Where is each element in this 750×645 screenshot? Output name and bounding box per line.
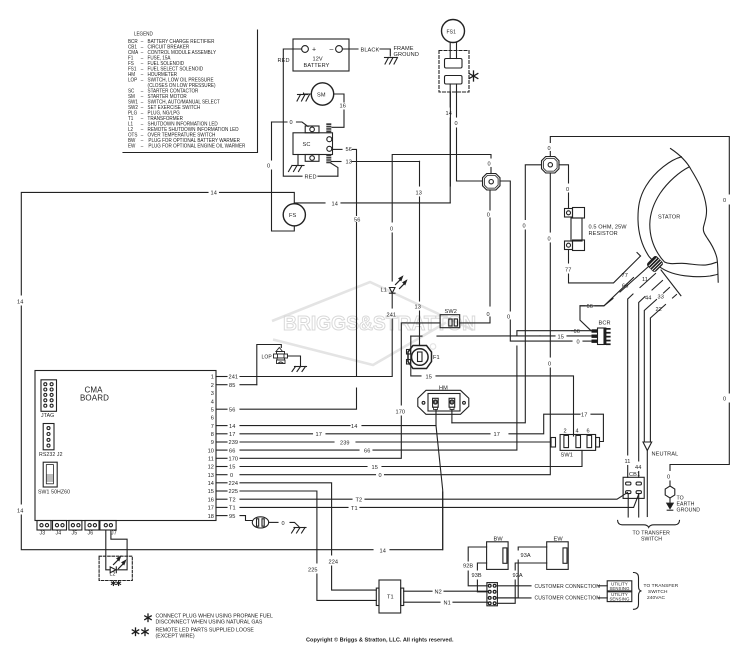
svg-text:17: 17 <box>494 432 500 438</box>
svg-text:T1: T1 <box>351 506 358 512</box>
svg-text:SC: SC <box>303 142 311 148</box>
svg-text:FS1: FS1 <box>447 30 457 36</box>
svg-text:SWITCH: SWITCH <box>648 589 668 595</box>
svg-text:J7: J7 <box>111 531 117 537</box>
svg-text:66: 66 <box>622 284 628 290</box>
svg-text:LOP: LOP <box>262 354 273 360</box>
svg-text:44: 44 <box>635 465 641 471</box>
svg-text:–: – <box>141 77 144 83</box>
svg-text:0: 0 <box>267 164 270 170</box>
svg-text:170: 170 <box>396 410 406 416</box>
svg-text:LEGEND: LEGEND <box>134 31 153 37</box>
svg-text:0: 0 <box>507 315 510 321</box>
svg-text:BCR: BCR <box>599 321 611 327</box>
svg-text:0: 0 <box>548 146 551 152</box>
svg-text:239: 239 <box>340 441 350 447</box>
svg-text:13: 13 <box>415 305 421 311</box>
svg-text:224: 224 <box>329 560 339 566</box>
svg-text:56: 56 <box>346 147 352 153</box>
svg-text:11: 11 <box>625 459 631 465</box>
svg-text:J3: J3 <box>40 531 46 537</box>
svg-text:RESISTOR: RESISTOR <box>589 231 618 237</box>
svg-text:0.5 OHM, 25W: 0.5 OHM, 25W <box>589 225 628 231</box>
svg-text:77: 77 <box>622 273 628 279</box>
svg-text:EW: EW <box>128 143 136 149</box>
svg-text:225: 225 <box>229 489 239 495</box>
svg-text:15: 15 <box>426 375 432 381</box>
svg-text:N1: N1 <box>444 600 451 606</box>
svg-text:0: 0 <box>488 162 491 168</box>
svg-text:BW: BW <box>494 537 504 543</box>
svg-text:66: 66 <box>229 448 235 454</box>
svg-text:BRIGGS&STRATTON: BRIGGS&STRATTON <box>283 312 476 335</box>
svg-text:92B: 92B <box>463 564 473 570</box>
svg-text:224: 224 <box>229 481 239 487</box>
svg-text:4: 4 <box>211 399 214 405</box>
svg-text:0: 0 <box>548 237 551 243</box>
svg-text:0: 0 <box>390 227 393 233</box>
svg-text:13: 13 <box>208 473 214 479</box>
svg-text:0: 0 <box>548 362 551 368</box>
svg-text:66: 66 <box>587 304 593 310</box>
svg-text:66: 66 <box>574 329 580 335</box>
svg-text:14: 14 <box>446 111 452 117</box>
svg-text:Copyright © Briggs & Stratton,: Copyright © Briggs & Stratton, LLC. All … <box>306 637 454 644</box>
svg-text:J5: J5 <box>72 531 78 537</box>
svg-text:22: 22 <box>656 307 662 313</box>
svg-text:2: 2 <box>564 429 567 435</box>
svg-text:16: 16 <box>208 497 214 503</box>
svg-text:N2: N2 <box>435 589 442 595</box>
svg-text:0: 0 <box>282 521 285 527</box>
svg-text:0: 0 <box>723 397 726 403</box>
svg-text:241: 241 <box>229 375 239 381</box>
svg-text:BATTERY: BATTERY <box>304 63 330 69</box>
svg-text:95: 95 <box>229 514 235 520</box>
svg-text:–: – <box>141 143 144 149</box>
svg-text:0: 0 <box>487 312 490 318</box>
svg-text:SM: SM <box>317 93 326 99</box>
svg-text:J6: J6 <box>88 531 94 537</box>
svg-text:SWITCH: SWITCH <box>641 537 662 543</box>
svg-text:239: 239 <box>229 440 239 446</box>
svg-text:T2: T2 <box>229 497 236 503</box>
svg-text:17: 17 <box>316 432 322 438</box>
svg-text:GROUND: GROUND <box>394 52 419 58</box>
svg-text:0: 0 <box>379 473 382 479</box>
svg-text:56: 56 <box>354 218 360 224</box>
svg-text:2: 2 <box>211 383 214 389</box>
svg-text:14: 14 <box>332 202 338 208</box>
svg-text:241: 241 <box>387 313 397 319</box>
svg-text:93A: 93A <box>521 553 531 559</box>
svg-text:10: 10 <box>208 448 214 454</box>
svg-text:15: 15 <box>372 465 378 471</box>
svg-text:17: 17 <box>208 506 214 512</box>
svg-text:170: 170 <box>229 457 239 463</box>
svg-text:CUSTOMER CONNECTION: CUSTOMER CONNECTION <box>535 584 601 590</box>
svg-text:56: 56 <box>229 407 235 413</box>
svg-text:SENSING: SENSING <box>609 597 630 602</box>
svg-text:12: 12 <box>208 465 214 471</box>
svg-text:92A: 92A <box>513 573 523 579</box>
svg-text:9: 9 <box>211 440 214 446</box>
svg-text:16: 16 <box>340 104 346 110</box>
svg-text:3: 3 <box>211 391 214 397</box>
svg-text:0: 0 <box>290 120 293 126</box>
svg-text:18: 18 <box>208 514 214 520</box>
svg-text:66: 66 <box>364 449 370 455</box>
svg-text:RED: RED <box>278 58 290 64</box>
svg-text:BOARD: BOARD <box>80 394 109 403</box>
svg-text:BLACK: BLACK <box>361 47 380 53</box>
svg-text:8: 8 <box>211 432 214 438</box>
svg-text:L1: L1 <box>381 288 387 294</box>
svg-text:13: 13 <box>416 191 422 197</box>
svg-text:7: 7 <box>211 424 214 430</box>
svg-text:14: 14 <box>229 424 235 430</box>
svg-text:CB1: CB1 <box>629 472 640 478</box>
svg-text:(EXCEPT WIRE): (EXCEPT WIRE) <box>156 634 195 640</box>
svg-text:F1: F1 <box>433 355 440 361</box>
svg-text:0: 0 <box>566 187 569 193</box>
svg-text:13: 13 <box>346 160 352 166</box>
svg-text:14: 14 <box>380 549 386 555</box>
svg-text:0: 0 <box>667 475 670 481</box>
svg-text:44: 44 <box>645 296 651 302</box>
svg-text:240VAC: 240VAC <box>647 595 666 601</box>
svg-text:GROUND: GROUND <box>677 508 701 514</box>
svg-text:+: + <box>312 46 316 53</box>
svg-text:6: 6 <box>211 416 214 422</box>
svg-text:DISCONNECT WHEN USING NATUR: DISCONNECT WHEN USING NATURAL GAS <box>156 620 263 626</box>
svg-text:–: – <box>330 47 334 54</box>
svg-text:SENSING: SENSING <box>609 586 630 591</box>
svg-text:SW1: SW1 <box>561 453 573 459</box>
svg-text:14: 14 <box>17 509 23 515</box>
svg-text:0: 0 <box>455 121 458 127</box>
svg-text:CUSTOMER CONNECTION: CUSTOMER CONNECTION <box>535 596 601 602</box>
svg-text:4: 4 <box>576 429 579 435</box>
svg-text:14: 14 <box>351 424 357 430</box>
svg-text:NEUTRAL: NEUTRAL <box>652 452 679 458</box>
svg-text:225: 225 <box>308 568 318 574</box>
svg-text:T1: T1 <box>229 506 236 512</box>
svg-text:6: 6 <box>587 429 590 435</box>
svg-text:17: 17 <box>229 432 235 438</box>
svg-text:17: 17 <box>581 413 587 419</box>
svg-text:0: 0 <box>487 213 490 219</box>
svg-text:77: 77 <box>565 268 571 274</box>
svg-text:HM: HM <box>439 386 448 392</box>
svg-text:11: 11 <box>208 457 214 463</box>
svg-text:15: 15 <box>229 465 235 471</box>
svg-text:J4: J4 <box>56 531 62 537</box>
svg-text:SW2: SW2 <box>445 309 457 315</box>
svg-text:0: 0 <box>523 224 526 230</box>
svg-text:0: 0 <box>230 473 233 479</box>
svg-text:RED: RED <box>305 175 317 181</box>
svg-text:14: 14 <box>17 300 23 306</box>
svg-text:JTAG: JTAG <box>41 413 54 419</box>
svg-text:L2: L2 <box>110 572 116 578</box>
svg-text:11: 11 <box>642 277 648 283</box>
svg-text:0: 0 <box>723 198 726 204</box>
svg-text:STATOR: STATOR <box>658 215 680 221</box>
svg-text:T1: T1 <box>387 594 394 600</box>
svg-text:15: 15 <box>558 335 564 341</box>
svg-text:SW1 50HZ60: SW1 50HZ60 <box>38 490 70 496</box>
svg-text:PLUG FOR OPTIONAL ENGINE OIL W: PLUG FOR OPTIONAL ENGINE OIL WARMER <box>148 143 245 149</box>
svg-text:RS232 J2: RS232 J2 <box>39 452 63 458</box>
svg-text:93B: 93B <box>472 573 482 579</box>
svg-text:TO TRANSFER: TO TRANSFER <box>644 583 679 589</box>
svg-text:85: 85 <box>229 383 235 389</box>
svg-text:0: 0 <box>577 340 580 346</box>
svg-text:33: 33 <box>658 295 664 301</box>
svg-text:5: 5 <box>211 407 214 413</box>
svg-text:12V: 12V <box>313 57 323 63</box>
svg-text:FS: FS <box>289 213 297 219</box>
svg-text:T2: T2 <box>356 498 363 504</box>
svg-text:EW: EW <box>554 537 564 543</box>
svg-text:14: 14 <box>211 191 217 197</box>
svg-text:1: 1 <box>211 375 214 381</box>
svg-text:15: 15 <box>208 489 214 495</box>
svg-text:LOP: LOP <box>128 77 138 83</box>
svg-text:14: 14 <box>208 481 214 487</box>
